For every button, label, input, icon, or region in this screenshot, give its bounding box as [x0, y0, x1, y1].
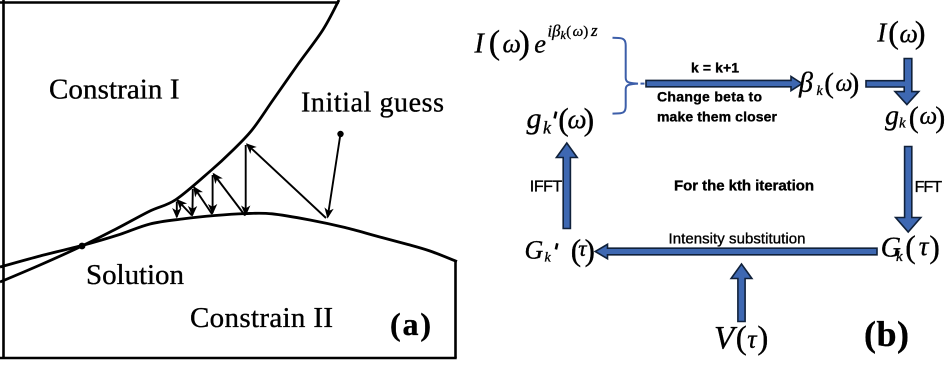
svg-text:(: ( — [888, 14, 899, 50]
arrow bounce L0 to U1 — [247, 144, 326, 218]
math Gk'(tau) bottom left — [525, 233, 595, 268]
arrow intensity substitution (right to left) — [595, 244, 877, 258]
svg-text:): ) — [850, 68, 860, 100]
arrow bounce L1 to U2 — [214, 174, 245, 216]
svg-text:(: ( — [566, 24, 571, 40]
svg-text:k: k — [543, 118, 552, 138]
prime of Gk' — [556, 243, 557, 249]
panel (a) border left — [2, 0, 5, 358]
initial guess dot — [337, 131, 343, 137]
svg-text:I: I — [474, 29, 486, 60]
arrow bounce L3 to U4 — [178, 200, 193, 215]
arrow bounce U1 to L1 — [245, 145, 247, 215]
brace grouping I(w)e and gk'(w) — [613, 38, 645, 114]
svg-text:(a): (a) — [390, 306, 431, 342]
svg-text:k = k+1: k = k+1 — [691, 60, 739, 76]
svg-text:): ) — [583, 24, 588, 40]
svg-text:e: e — [534, 29, 546, 59]
math V(tau) bottom center — [714, 321, 768, 357]
svg-text:k: k — [899, 116, 906, 132]
math I(w) top right — [876, 14, 925, 50]
connector beta to I(w) elbow arrow — [866, 59, 919, 105]
math gk'(w) left — [527, 102, 595, 138]
arrow FFT — [896, 147, 921, 233]
svg-text:τ: τ — [919, 231, 930, 261]
svg-text:g: g — [527, 102, 542, 135]
arrow bounce U3 to L3 — [191, 189, 193, 215]
svg-text:(: ( — [824, 68, 834, 100]
panel (a) border right — [454, 260, 457, 358]
svg-text:(b): (b) — [864, 314, 909, 354]
svg-text:iβ: iβ — [548, 21, 562, 40]
svg-text:Solution: Solution — [86, 259, 185, 291]
svg-text:k: k — [545, 251, 552, 266]
svg-text:For the kth iteration: For the kth iteration — [674, 177, 814, 194]
svg-text:): ) — [584, 102, 595, 137]
math gk(w) right — [885, 101, 945, 134]
arrow IFFT up — [556, 143, 577, 229]
svg-text:Initial guess: Initial guess — [301, 88, 444, 119]
svg-text:): ) — [585, 233, 595, 268]
panel (a) border top — [0, 1, 339, 4]
svg-text:k: k — [817, 84, 824, 99]
svg-text:g: g — [885, 101, 899, 132]
svg-text:Constrain II: Constrain II — [190, 302, 333, 334]
svg-text:Intensity substitution: Intensity substitution — [669, 230, 806, 247]
svg-text:FFT: FFT — [915, 179, 943, 196]
math Gk(tau) bottom right — [881, 230, 940, 265]
arrow V(tau) up — [731, 264, 752, 322]
svg-text:ω: ω — [573, 24, 584, 40]
svg-text:make them closer: make them closer — [657, 108, 778, 124]
svg-text:): ) — [935, 101, 945, 134]
svg-text:IFFT: IFFT — [530, 178, 563, 195]
svg-text:(: ( — [905, 230, 916, 265]
arrow bounce L2 to U3 — [194, 187, 212, 214]
svg-text:(: ( — [736, 321, 747, 357]
svg-text:Change beta to: Change beta to — [657, 88, 762, 104]
arrow bounce U4 to L4 — [176, 202, 178, 218]
curve constrain II boundary — [0, 213, 457, 267]
svg-text:k: k — [896, 249, 903, 265]
svg-text:β: β — [798, 68, 813, 99]
arrow bounce U2 to L2 — [212, 175, 214, 213]
svg-text:z: z — [590, 21, 598, 40]
svg-text:): ) — [929, 230, 940, 265]
math I(w)e^ibkz top left — [474, 21, 599, 61]
prime of gk' — [555, 112, 557, 119]
arrow k=k+1 (beta update) — [646, 77, 802, 91]
svg-text:): ) — [757, 321, 768, 357]
svg-text:Constrain I: Constrain I — [49, 74, 180, 106]
panel (a) border bottom — [0, 357, 457, 360]
curve constrain I boundary — [0, 0, 339, 282]
math beta k (w) — [798, 68, 859, 100]
svg-text:(: ( — [909, 101, 919, 134]
svg-text:): ) — [519, 25, 530, 62]
svg-text:(: ( — [489, 25, 500, 62]
solution dot — [79, 243, 86, 250]
arrow initial guess to constrain II — [328, 137, 340, 217]
svg-text:): ) — [915, 14, 926, 50]
svg-text:G: G — [525, 236, 544, 265]
